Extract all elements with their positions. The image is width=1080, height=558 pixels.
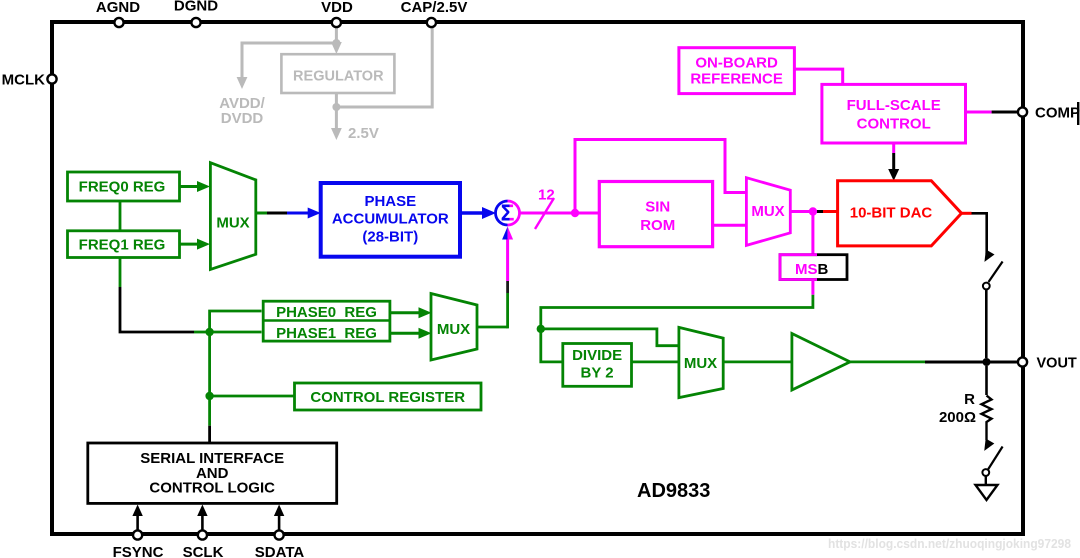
svg-text:12: 12 <box>538 187 555 204</box>
svg-text:ACCUMULATOR: ACCUMULATOR <box>332 211 449 228</box>
sigma adder U3 <box>496 200 520 226</box>
pin VOUT <box>1018 356 1077 372</box>
svg-text:200Ω: 200Ω <box>939 409 976 426</box>
svg-text:BY 2: BY 2 <box>581 365 614 382</box>
svg-text:MUX: MUX <box>437 321 470 338</box>
pin CAP/2.5V <box>401 0 468 27</box>
svg-text:10-BIT DAC: 10-BIT DAC <box>850 205 933 222</box>
arrow into regulator <box>331 42 342 54</box>
wire buffer to VOUT <box>850 360 925 363</box>
arrow AVDD/DVDD <box>237 77 248 89</box>
svg-text:DGND: DGND <box>174 0 218 15</box>
arrow into sigma bottom (split blue/magenta) <box>502 227 508 240</box>
wire VDD down to regulator <box>335 25 338 47</box>
wire full-scale down to DAC <box>892 143 895 153</box>
wire mux3 to DAC <box>790 210 816 213</box>
junction dot spine upper <box>205 328 213 336</box>
svg-text:MUX: MUX <box>684 355 717 372</box>
wire mux1 output green-black-blue <box>256 212 267 215</box>
wire control register to spine <box>210 395 295 398</box>
arrow PHASE0 to MUX <box>390 311 421 314</box>
mux U1 frequency MUX <box>210 163 255 270</box>
junction dot regulator out <box>332 103 340 111</box>
svg-text:FREQ0 REG: FREQ0 REG <box>79 179 166 196</box>
svg-text:CONTROL: CONTROL <box>857 116 931 133</box>
arrow PHASE1 to MUX <box>390 332 421 335</box>
svg-text:https://blog.csdn.net/zhuoqing: https://blog.csdn.net/zhuoqingjoking9729… <box>828 536 1071 551</box>
phase register PHASE1 REG <box>276 325 377 342</box>
svg-text:CONTROL REGISTER: CONTROL REGISTER <box>310 389 465 406</box>
wire divide to mux4 <box>632 360 679 363</box>
svg-text:SIN: SIN <box>645 199 670 216</box>
green wire FREQ0-FREQ1 connector <box>119 201 122 231</box>
regulator REGULATOR box <box>281 54 394 93</box>
junction dot divide branch <box>537 325 545 333</box>
ground <box>976 485 998 500</box>
junction dot sigma out <box>571 209 579 217</box>
svg-text:ROM: ROM <box>640 217 675 234</box>
svg-text:DVDD: DVDD <box>221 110 264 127</box>
phase accumulator box <box>321 183 460 257</box>
svg-text:FULL-SCALE: FULL-SCALE <box>847 97 941 114</box>
svg-text:MCLK: MCLK <box>2 72 45 89</box>
arrow FREQ0 to MUX <box>179 185 199 188</box>
wire sin rom to mux3 <box>713 224 747 227</box>
arrow FREQ1 to MUX <box>179 243 199 246</box>
svg-text:MSB: MSB <box>795 261 829 278</box>
svg-text:R: R <box>964 391 975 408</box>
junction dot mux3 out <box>809 207 817 215</box>
regulator grey section <box>242 25 432 130</box>
wire mux2 to sigma vertical <box>477 326 508 329</box>
svg-text:AD9833: AD9833 <box>637 480 710 502</box>
svg-text:AGND: AGND <box>96 0 140 16</box>
junction dot VDD <box>332 39 340 47</box>
svg-text:PHASE: PHASE <box>364 193 416 210</box>
feedback wire around SIN ROM <box>575 140 747 214</box>
svg-text:REGULATOR: REGULATOR <box>293 69 384 85</box>
svg-text:FREQ1 REG: FREQ1 REG <box>79 237 166 254</box>
pin SDATA <box>255 505 305 558</box>
svg-text:SDATA: SDATA <box>255 544 305 558</box>
wire into spine junction <box>194 331 210 334</box>
junction dot VOUT <box>983 358 991 366</box>
wire full-scale to COMP pin <box>966 111 992 114</box>
pin DGND <box>174 0 218 27</box>
bus slash 12 <box>535 198 554 229</box>
svg-text:ON-BOARD: ON-BOARD <box>695 55 778 72</box>
wire MSB down and left to divide/mux <box>811 280 814 295</box>
svg-text:DIVIDE: DIVIDE <box>572 347 622 364</box>
switch S1 <box>980 249 1002 358</box>
svg-text:CAP/2.5V: CAP/2.5V <box>401 0 468 16</box>
dac 10-BIT DAC <box>838 181 962 246</box>
svg-text:PHASE0 REG: PHASE0 REG <box>276 304 377 321</box>
freq register FREQ1 REG <box>68 231 180 258</box>
control register box <box>295 383 482 410</box>
full-scale control box <box>822 84 966 143</box>
svg-text:(28-BIT): (28-BIT) <box>362 229 418 246</box>
pin SCLK <box>183 505 224 558</box>
wire regulator to CAP pin <box>336 25 432 107</box>
svg-text:REFERENCE: REFERENCE <box>690 71 783 88</box>
switch S2 <box>980 438 1003 485</box>
svg-text:COMP: COMP <box>1035 105 1080 122</box>
svg-text:2.5V: 2.5V <box>348 125 379 142</box>
msb box (magenta/black split) <box>780 255 847 280</box>
wire accumulator to sigma <box>460 211 487 214</box>
junction dot spine lower <box>205 392 213 400</box>
wire branch left to AVDD arrow <box>242 43 336 78</box>
mux U2 phase MUX <box>431 294 477 361</box>
pin MCLK <box>2 72 57 89</box>
svg-text:MUX: MUX <box>216 215 249 232</box>
wire FREQ1 down (green then black) <box>119 258 122 288</box>
pin AGND <box>96 0 140 27</box>
wire reference to full-scale <box>794 69 842 84</box>
spine vertical wire <box>208 332 211 396</box>
wire mux3 out down to MSB <box>811 212 814 255</box>
pin FSYNC <box>113 505 164 558</box>
resistor R 200ohm <box>939 366 992 440</box>
svg-text:VDD: VDD <box>321 0 353 16</box>
svg-text:PHASE1 REG: PHASE1 REG <box>276 325 377 342</box>
mux U5 output MUX <box>679 327 723 397</box>
wire sigma to SIN ROM <box>520 212 601 215</box>
svg-text:FSYNC: FSYNC <box>113 544 164 558</box>
svg-text:MUX: MUX <box>751 203 784 220</box>
wire regulator bottom down <box>335 93 338 130</box>
svg-text:CONTROL LOGIC: CONTROL LOGIC <box>149 480 275 497</box>
svg-text:SCLK: SCLK <box>183 544 224 558</box>
wire branch to divide by 2 <box>541 329 563 362</box>
wire branch to mux4 upper input <box>541 329 679 346</box>
mux U4 magenta MUX <box>746 178 790 246</box>
phase register PHASE0 REG <box>263 301 390 341</box>
pin COMP <box>1018 102 1080 125</box>
wire DAC output to switch <box>962 212 972 215</box>
on-board reference box <box>679 48 795 94</box>
phase registers wires from spine <box>210 311 262 332</box>
wire mux4 to buffer <box>723 360 792 363</box>
arrow 2.5V <box>331 128 342 140</box>
pin VDD <box>321 0 353 27</box>
serial interface box <box>88 443 337 503</box>
sin rom box <box>599 182 712 247</box>
divide by 2 box <box>563 344 632 387</box>
buffer amplifier <box>792 334 850 391</box>
freq register FREQ0 REG <box>68 172 180 201</box>
svg-text:VOUT: VOUT <box>1037 356 1077 372</box>
